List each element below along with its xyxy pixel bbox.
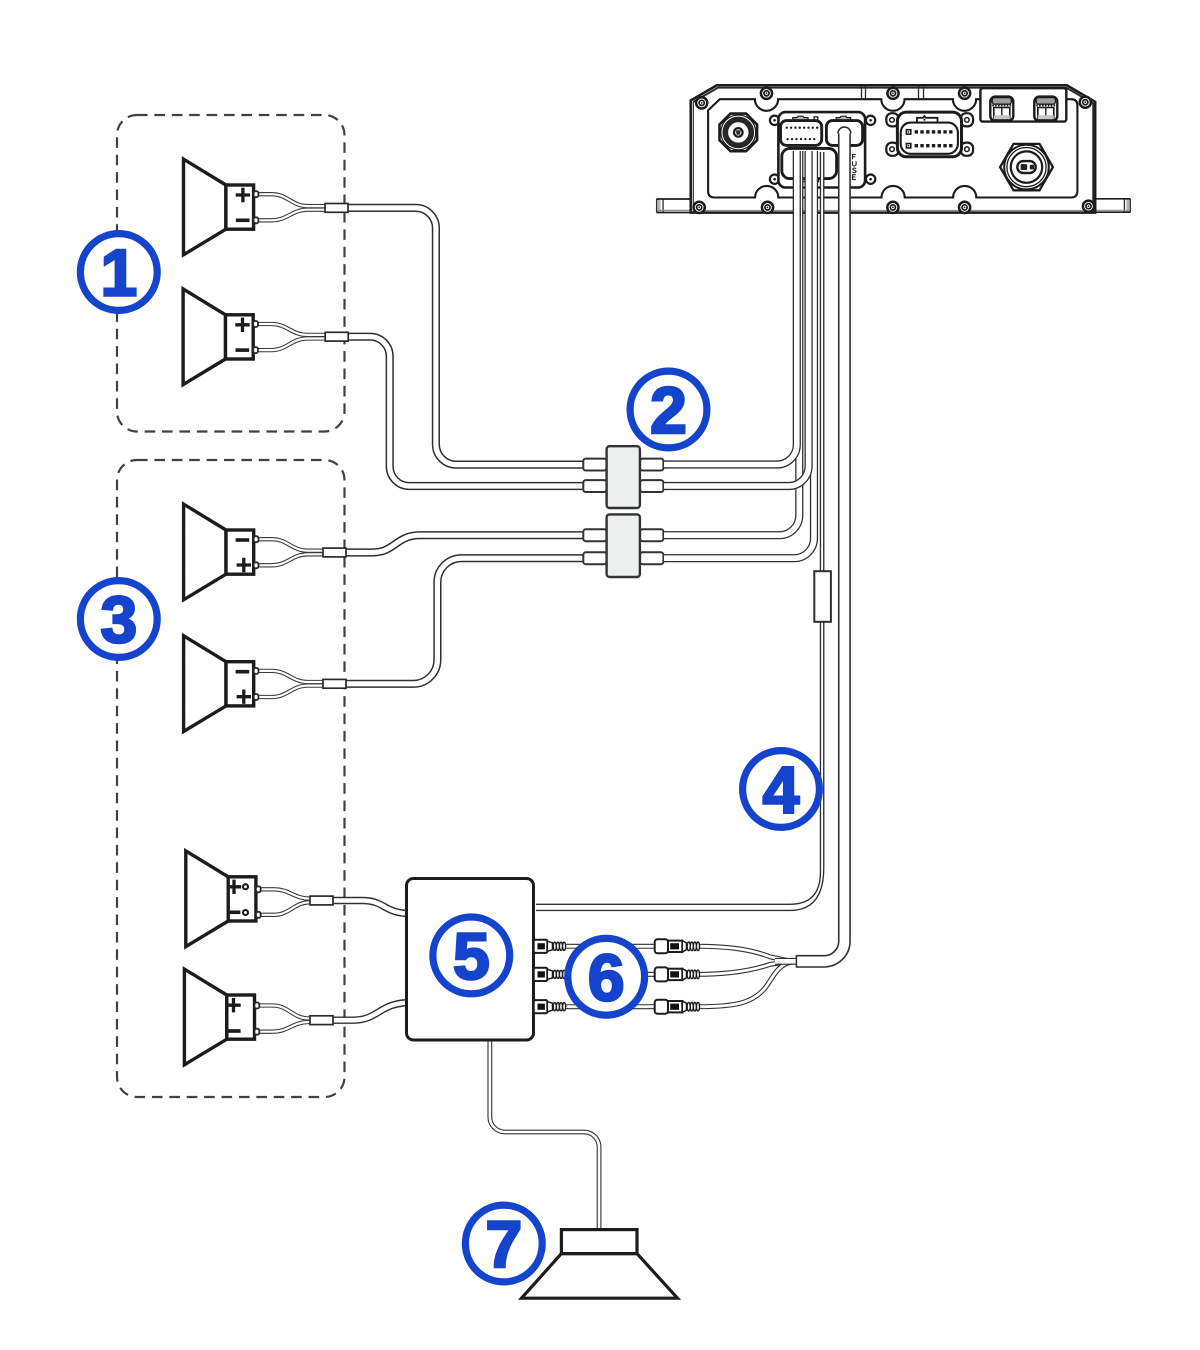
wire 4: line-level drain wire device to box 5 [536,152,824,910]
speaker 3a polarity marks [236,540,251,572]
connector block B2 body [607,514,640,577]
speaker 3a driver body [226,530,254,574]
wire speaker3a cable to connector block B2 upper stub [342,535,591,552]
callout label 6 [568,938,645,1015]
middle connector group (speaker / line out block) [770,112,875,187]
speaker 1b cable sleeve [325,332,348,341]
screw at 964.6,93.3 [959,88,970,99]
chassis inner edge highlight lines [693,88,1093,212]
speaker 5b driver body [227,995,255,1039]
speaker 3b terminal pins [254,668,259,674]
chassis screws [694,88,1094,213]
wire subwoofer cable box 5 to subwoofer [490,1036,599,1232]
LAYER: labels [80,234,819,1282]
device right mounting bracket [1096,199,1131,213]
wire block B2 upper stub to device bundle cable 3 [664,151,799,535]
svg-text:1: 1 [100,236,137,310]
speaker 1a polarity marks [236,188,250,221]
screw at 893,93.3 [887,88,898,99]
zone box 3 (speaker zone 2) [117,460,345,1097]
screw at 766.5,93.3 [761,88,772,99]
speaker 1a cone [184,159,226,255]
speaker 3a terminal pins [254,536,259,542]
screw at 767.5,207.4 [762,202,773,213]
screw at 964.6,207.4 [959,202,970,213]
LAYER: speakers [183,159,348,1065]
power connector 14-pin [886,112,973,157]
speaker 5b polarity marks [226,998,240,1031]
LAYER: cables over device [536,127,851,968]
subwoofer speaker item 7 [522,1230,678,1299]
connector block B2 stubs [583,529,663,564]
speaker 1a driver body [226,185,254,229]
svg-text:5: 5 [453,919,490,993]
chassis bottom shadow line [693,210,1094,212]
wire Y-split neck [775,955,797,968]
speaker 1a terminal wires [258,194,335,206]
speaker 3b (zone2 bottom, - upper) [184,636,346,732]
trunk cable end cap line [795,955,797,968]
speaker 5a driver body [228,877,256,921]
speaker 3a (zone2 top, - upper) [184,504,346,600]
speaker 5a cable sleeve [310,896,333,905]
antenna coax connector [720,114,758,152]
wire RCA socket leads rows 1-3 [550,944,660,949]
speaker 1a cable sleeve [325,204,348,213]
speaker 5a polarity marks [227,880,248,915]
wire speaker5a cable into box 5 [329,901,412,914]
screw at 1085.3,102.2 [1080,97,1091,108]
svg-text:6: 6 [588,940,625,1014]
wire RCA lead row 3 (plug to Y-split) [697,962,792,1007]
speaker 3b polarity marks [236,672,251,704]
speaker 5b terminal wires [259,1006,320,1019]
speaker 5a terminal pins [256,886,261,892]
LAYER: inline connectors item 2 [583,446,663,577]
speaker 5b cone [184,969,226,1065]
connector block B1 body [607,446,640,508]
speaker 1b driver body [226,315,254,359]
wire speaker3b cable to connector block B2 lower stub [342,558,591,684]
zone box 1 (speaker pair zone 1) [117,115,345,432]
svg-text:3: 3 [100,583,137,657]
speaker 1a (zone1 top, + upper) [184,159,349,255]
speaker 3b terminal wires [258,671,333,682]
wire speaker5b cable into box 5 [329,1003,412,1021]
speaker 3b cable sleeve [323,679,346,688]
RCA socket row 2 [534,968,566,981]
callout label 1 [80,234,157,311]
speaker 1b terminal wires [257,324,335,335]
device left mounting bracket [657,199,692,213]
speaker 5a cone [186,851,228,947]
screw at 1088.5,206.2 [1083,201,1094,212]
LAYER: wires [329,208,792,1232]
USB hex connector [1000,144,1053,190]
wire block B2 lower stub to device bundle cable 4 [664,151,814,558]
wire speaker1a cable to connector block B1 upper stub [346,208,590,465]
LAYER: subwoofer amp box item 5 [407,879,700,1299]
svg-text:7: 7 [485,1207,522,1281]
RCA plug row 1 [655,939,700,953]
wire block B1 upper stub to device bundle cable 1 [664,151,797,465]
speaker 5b terminal pins [255,1003,260,1009]
callout label 4 [743,751,820,828]
wire block B1 lower stub to device bundle cable 2 [664,151,809,486]
speaker 5a terminal wires [260,889,320,898]
ferrite bead on wire 4 [814,571,831,622]
speaker 1b cone [183,289,225,385]
callout label 3 [80,581,157,658]
speaker 1b polarity marks [235,318,249,351]
RCA plug row 3 [655,1000,700,1014]
LAYER: device rear panel [657,85,1131,213]
callout label 7 [465,1205,542,1282]
LAYER: dashed zone boxes [117,115,345,1097]
speaker 3a terminal wires [258,539,333,551]
wire: main RCA trunk cable device to Y-split [796,133,844,961]
wire speaker1b cable to connector block B1 lower stub [347,337,590,486]
speaker 3b driver body [226,662,254,706]
chassis chamfer tick marks [862,87,924,100]
svg-text:4: 4 [763,753,800,827]
connector block B1 stubs [583,459,663,492]
speaker 5b (sub zone bottom, + upper) [184,969,333,1065]
speaker 1b (zone1 bottom, + upper) [183,289,348,385]
callout label 2 [630,371,707,448]
speaker 1b terminal pins [253,321,258,327]
box 5 body (sub amplifier) [407,879,534,1041]
inner recessed panel outline with screw notches [708,99,1077,197]
speaker 5b cable sleeve [310,1016,333,1025]
trunk cable top dome at device connector [838,127,851,133]
screw at 701.7,102.9 [696,97,707,108]
speaker 3a cable sleeve [323,548,346,557]
RCA socket row 3 [534,1000,566,1013]
device chassis front face [691,85,1095,212]
speaker 3a cone [184,504,226,600]
cable clamp block [980,88,1066,121]
RCA plug row 2 [655,967,700,981]
wire RCA lead row 1 (plug to Y-split) [697,946,789,961]
callout label 5 [433,917,510,994]
speaker 1a terminal pins [254,191,259,197]
svg-text:2: 2 [650,373,687,447]
wire RCA lead row 2 (plug to Y-split) [697,962,788,975]
screw at 699.2,207.4 [694,202,705,213]
speaker 3b cone [184,636,226,732]
RCA socket row 1 [534,940,566,953]
screw at 892.9,207.4 [887,202,898,213]
speaker 5a (sub zone top, +o upper) [186,851,333,947]
